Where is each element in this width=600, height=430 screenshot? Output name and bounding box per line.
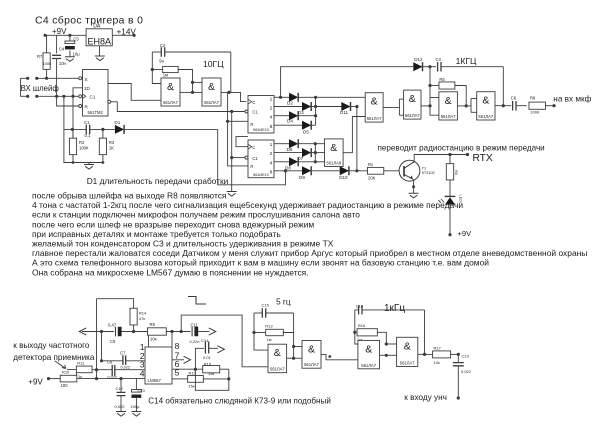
resistor R4 20К (base) <box>367 167 383 174</box>
wire D1 line down and to D10 row <box>218 129 286 184</box>
terminal arrow (row A input) <box>79 328 86 335</box>
ground (C5) <box>65 57 75 62</box>
wire R6 to LED <box>449 180 451 196</box>
gate U2.1 561ЛА7 (10Hz osc) <box>161 78 180 106</box>
svg-text:561ЛА7: 561ЛА7 <box>361 363 377 368</box>
svg-text:1D: 1D <box>84 86 91 91</box>
svg-text:4: 4 <box>270 160 273 166</box>
wire U9.1 out <box>380 354 387 356</box>
wire bus1 vertical <box>315 97 317 125</box>
counter U3 561ИЕ10 (upper) <box>248 96 274 134</box>
svg-text:D4: D4 <box>287 119 293 124</box>
svg-text:8: 8 <box>270 124 273 130</box>
svg-text:желаемый тон конденсатором С3: желаемый тон конденсатором С3 и длительн… <box>32 239 334 249</box>
node R16 left <box>353 331 356 334</box>
node C16 joins output <box>423 353 426 356</box>
resistor R5 100К <box>439 82 455 89</box>
pulse waveform symbol <box>188 297 206 305</box>
resistor R1 1м <box>163 66 179 72</box>
wire Qbar vertical to counter2 C1 and ground <box>231 112 233 192</box>
wire pin8 from row A <box>171 332 173 348</box>
node D1 line joins row8 <box>284 169 287 172</box>
resistor R13 1м <box>266 329 284 335</box>
node row A tap <box>100 330 103 333</box>
wire bus2 vertical <box>314 144 316 162</box>
node R5-output junction <box>465 104 468 107</box>
wire to U8.2 inB <box>294 357 302 359</box>
svg-text:ВХ шлейф: ВХ шлейф <box>21 84 60 93</box>
node bus1 top <box>314 96 317 99</box>
annotation arrow to input node <box>55 361 66 369</box>
svg-text:&: & <box>371 96 378 108</box>
svg-text:R5: R5 <box>439 77 445 82</box>
wire C12 to ground <box>120 396 122 412</box>
wire C16 left vertical <box>355 310 358 344</box>
wire R12 right <box>203 378 229 380</box>
wire R5 right down <box>455 86 466 106</box>
svg-text:561ЛА7: 561ЛА7 <box>400 361 416 366</box>
node +14V endpoint <box>133 34 136 37</box>
capacitor C14 0,01 <box>195 348 204 369</box>
node output на вх мкф <box>552 104 555 107</box>
node C12 branch <box>119 377 122 380</box>
svg-text:+9V: +9V <box>28 377 43 386</box>
gate U8.2 561ЛА7 (5Hz) <box>302 341 321 369</box>
svg-text:15к: 15к <box>208 371 214 376</box>
wire jog to U6.2 inB <box>399 114 403 116</box>
node counter2 C1 junction <box>230 156 233 159</box>
wire to C12 <box>120 379 122 392</box>
svg-text:главное перестали жаловатся со: главное перестали жаловатся соседи Датчи… <box>32 248 587 258</box>
svg-text:после обрыва шлейфа на выходе: после обрыва шлейфа на выходе R8 появляю… <box>32 191 227 201</box>
svg-text:после чего если шлеф не вразры: после чего если шлеф не вразрыве переход… <box>32 219 314 229</box>
pin trigger Q-bar circle <box>108 100 111 103</box>
resistor R16 1м <box>357 329 377 336</box>
wire C3 right <box>441 66 503 68</box>
wire counter1 out1 <box>274 96 289 98</box>
diode D10 <box>340 166 349 175</box>
svg-text:D6: D6 <box>287 147 293 152</box>
diode D6 <box>289 139 298 148</box>
svg-text:R6: R6 <box>454 170 458 175</box>
wire D1 to right vertical <box>124 128 218 130</box>
wire trigger Q-bar to counter1 C1 row <box>111 102 248 112</box>
node loop terminal lower-right <box>35 95 38 98</box>
wire D10 to R4 <box>349 170 368 172</box>
wire C10 to ground <box>135 398 137 412</box>
gate U2.2 561ЛА7 (10Hz osc) <box>202 78 221 106</box>
node lower row - left vertical junction <box>62 95 65 98</box>
wire to C10 <box>135 379 137 391</box>
svg-text:561ЛА7: 561ЛА7 <box>405 113 421 118</box>
svg-text:R14: R14 <box>139 310 147 315</box>
wire R15 right <box>220 368 229 370</box>
svg-text:561ИЕ10: 561ИЕ10 <box>253 128 269 132</box>
wire pin6 to R15 <box>172 368 203 370</box>
wire pin5 to R12 <box>172 378 187 380</box>
wire pin4 row <box>97 378 146 380</box>
svg-text:&: & <box>445 95 452 107</box>
wire to R1 left <box>152 69 162 71</box>
node Qbar row - counters C1 vertical <box>230 110 233 113</box>
svg-text:+14V: +14V <box>117 27 137 36</box>
node +9V endpoint (LED) <box>448 233 451 236</box>
svg-text:D2: D2 <box>287 100 293 105</box>
capacitor C7 0,022 <box>123 355 126 365</box>
svg-text:Она собрана на микросхеме LM56: Она собрана на микросхеме LM567 думаю в … <box>32 267 309 277</box>
gate U6.4 561ЛА7 <box>477 92 495 120</box>
diode D9 <box>302 166 311 175</box>
node bus2-D8 <box>314 160 317 163</box>
svg-text:1К: 1К <box>109 145 114 150</box>
node +9V endpoint (bottom) <box>47 377 50 380</box>
svg-text:561ЛА7: 561ЛА7 <box>304 362 320 367</box>
wire bus1 to D11 <box>316 106 342 108</box>
wire R11-R10 link <box>76 373 78 375</box>
node RTX endpoint <box>466 153 469 156</box>
node C4 line crossing <box>55 95 58 98</box>
wire pin2 row left of C7 <box>102 360 123 362</box>
svg-text:561ЛА7: 561ЛА7 <box>367 116 383 121</box>
node R2 ground <box>72 161 75 164</box>
wire R3 to ground row <box>102 155 104 163</box>
wire C4 to trigger R pin <box>57 59 79 107</box>
wire D11 out <box>350 106 357 108</box>
wire to U9.2 inB <box>386 354 396 356</box>
node D12-C3 <box>428 65 431 68</box>
svg-text:1кГц: 1кГц <box>384 303 405 314</box>
svg-text:DA: DA <box>93 23 101 29</box>
wire R8 to output <box>546 105 555 107</box>
wire R14 to row A <box>133 325 135 332</box>
wire R2 to ground row <box>72 155 74 163</box>
wire R13 right up <box>283 313 293 333</box>
svg-text:S: S <box>85 77 88 82</box>
svg-text:D8: D8 <box>285 166 291 171</box>
capacitor C1 0.1 <box>86 125 89 134</box>
gate U5.1 561ЛА9 <box>325 139 344 167</box>
svg-text:R: R <box>250 122 253 127</box>
svg-text:R13: R13 <box>265 324 273 329</box>
wire input to R11 <box>67 369 77 371</box>
svg-text:1: 1 <box>270 142 273 148</box>
wire node row to C1 <box>64 128 86 130</box>
resistor R14 47к <box>97 299 134 309</box>
wire +9V to R10 <box>49 378 61 380</box>
wire lower row down to R2 <box>72 96 74 138</box>
node bottom-right of R10 <box>95 377 98 380</box>
terminal arrow (row A output) <box>209 328 216 335</box>
wire U6.3 out <box>457 105 471 107</box>
wire D4 to bus1 <box>298 115 316 117</box>
svg-text:D9: D9 <box>299 175 305 180</box>
wire D3 to bus1 <box>311 106 316 108</box>
svg-text:С4: С4 <box>59 47 65 52</box>
wire D9 to D10 <box>311 170 340 172</box>
resistor R2 100K <box>69 138 76 155</box>
svg-text:переводит радиостанцию в режим: переводит радиостанцию в режим передачи <box>378 143 545 152</box>
gate U6.1 561ЛА7 <box>365 93 383 122</box>
svg-text:+9V: +9V <box>52 27 67 36</box>
svg-text:1м: 1м <box>163 72 168 77</box>
terminal arrow (C14) <box>217 346 224 353</box>
svg-text:0.022: 0.022 <box>461 369 472 374</box>
svg-text:561ЛА7: 561ЛА7 <box>270 367 286 372</box>
node U9.2 inA <box>385 342 388 345</box>
wire R11 to C8 (pin3 row) <box>92 369 112 371</box>
svg-text:1: 1 <box>270 96 273 102</box>
IC U7 LM567 <box>145 347 172 384</box>
node emitter <box>412 185 415 188</box>
capacitor C9 0.47 <box>115 327 117 337</box>
capacitor C11 0,22н <box>191 327 193 337</box>
node D10 output junction <box>355 169 358 172</box>
gate U9.1 561ЛА7 (1kHz) <box>358 340 380 368</box>
wire C15 right <box>266 312 294 314</box>
svg-text:D10: D10 <box>339 175 348 180</box>
wire left long vertical <box>96 299 98 379</box>
svg-text:&: & <box>274 347 281 359</box>
capacitor C13 0.022 (output) <box>453 363 464 366</box>
svg-text:0,47: 0,47 <box>108 322 117 327</box>
wire counter2 out1 <box>274 143 289 145</box>
wire regulator to +14V <box>112 34 134 36</box>
svg-text:0,01: 0,01 <box>203 355 212 360</box>
resistor R3 1К <box>99 138 106 155</box>
capacitor C5 10u electrolytic <box>65 41 75 44</box>
wire pin1 from R9 <box>148 335 150 347</box>
capacitor C12 0,022 <box>117 392 126 395</box>
node big loop tap on row A <box>180 330 183 333</box>
node R6 branch <box>448 153 451 156</box>
ground (C12) <box>116 412 126 417</box>
svg-text:D5: D5 <box>303 130 309 135</box>
node lower row - R2 vertical junction <box>71 95 74 98</box>
wire loop row lower to trigger C1 <box>37 95 79 97</box>
svg-text:D1: D1 <box>114 120 120 125</box>
wire trigger D pin to lower row <box>73 88 83 97</box>
svg-text:0,022: 0,022 <box>121 366 131 370</box>
node 10Hz output junction <box>227 91 230 94</box>
resistor R17 10к <box>433 351 451 358</box>
counter U4 561ИЕ10 (lower) <box>248 140 274 178</box>
svg-text:R7: R7 <box>37 54 43 59</box>
wire +9V to C4 <box>56 35 58 53</box>
transistor T1 КТ3102 <box>399 160 420 181</box>
svg-text:+9V: +9V <box>458 229 473 238</box>
svg-text:к входу унч: к входу унч <box>404 393 447 402</box>
node U6.2 out - D12 feedback <box>428 104 431 107</box>
svg-text:С9: С9 <box>110 339 116 344</box>
wire 10Hz line down to counter2 R <box>228 92 248 165</box>
svg-text:10к: 10к <box>434 360 440 365</box>
wire C2 to right vertical <box>165 51 231 53</box>
capacitor C6 <box>513 101 516 111</box>
wire C6 to R8 <box>516 105 527 107</box>
svg-text:2: 2 <box>270 151 273 157</box>
svg-text:R: R <box>250 164 253 169</box>
svg-text:С1: С1 <box>84 120 90 125</box>
svg-text:100К: 100К <box>43 62 52 66</box>
wire D8 to bus2 <box>298 161 316 163</box>
svg-text:0.1: 0.1 <box>85 133 91 138</box>
wire jog to U6.2 inA <box>399 98 403 100</box>
svg-text:4: 4 <box>270 115 273 121</box>
wire counter2 out8 <box>274 170 302 172</box>
capacitor C10 100μ electrolytic <box>132 390 142 393</box>
svg-text:D1 длительность передачи срабо: D1 длительность передачи сработки <box>87 176 229 186</box>
diode D3 <box>302 102 311 111</box>
wire to U9.2 inA <box>386 343 396 345</box>
node R5 left <box>428 84 431 87</box>
wire R9 to C11 <box>166 331 190 333</box>
svg-text:С3: С3 <box>436 57 442 62</box>
svg-text:&: & <box>365 343 372 355</box>
svg-text:10н: 10н <box>59 61 67 66</box>
node R3 ground <box>102 161 105 164</box>
wire down to gate output <box>293 333 295 359</box>
wire U6.1 out <box>383 106 399 108</box>
svg-text:2: 2 <box>270 105 273 111</box>
svg-text:0,022: 0,022 <box>115 404 126 409</box>
wire gate1 output <box>180 91 193 93</box>
node R7-loop junction <box>45 77 48 80</box>
node +9V rail left endpoint <box>44 34 47 37</box>
diode D2 <box>289 93 298 102</box>
wire cap to output terminal <box>457 366 459 398</box>
wire gate2 output to counter1 C <box>221 92 246 101</box>
svg-text:561ЛА7: 561ЛА7 <box>441 114 457 119</box>
wire R16 right down <box>377 332 386 344</box>
wire C14 right <box>209 347 218 349</box>
node U8.2 inA <box>292 345 295 348</box>
wire R7 to loop input row <box>46 69 48 78</box>
wire C3 feedback vertical <box>502 67 504 106</box>
wire to U6.3 inA <box>430 97 439 99</box>
svg-text:561ТМ2: 561ТМ2 <box>88 110 104 115</box>
svg-text:С14 обязательно слюдяной К73-9: С14 обязательно слюдяной К73-9 или подоб… <box>148 396 331 405</box>
svg-text:20К: 20К <box>368 175 376 180</box>
node U8.2 inB <box>292 357 295 360</box>
wire to R13 <box>254 332 266 334</box>
wire 5Hz out to 1kHz gate <box>321 354 358 359</box>
node R2 top <box>71 128 74 131</box>
ground (regulator) <box>99 46 101 56</box>
resistor R8 100К <box>529 102 546 109</box>
connector ВХ шлейф bracket <box>21 78 27 96</box>
node 5Hz out <box>328 355 331 358</box>
svg-text:R17: R17 <box>434 345 442 350</box>
wire U8.1 out <box>287 357 294 359</box>
svg-text:D11: D11 <box>340 110 349 115</box>
svg-text:C5: C5 <box>73 36 79 41</box>
node output cap top <box>457 353 460 356</box>
ground (R2/R3) <box>88 163 90 165</box>
svg-text:D12: D12 <box>414 57 423 62</box>
wire jog vertical 2 <box>470 99 472 113</box>
node к входу унч endpoint <box>457 396 460 399</box>
gate U6.2 561ЛА7 <box>404 90 421 119</box>
svg-text:8: 8 <box>175 341 180 351</box>
svg-text:к выходу частотного: к выходу частотного <box>13 341 90 350</box>
svg-text:8: 8 <box>270 169 273 175</box>
wire D11-D10 vertical <box>356 107 358 171</box>
wire to R5 left <box>430 85 439 87</box>
svg-text:&: & <box>330 142 337 154</box>
svg-text:&: & <box>308 344 315 356</box>
svg-text:С1: С1 <box>252 156 258 161</box>
node gate2 input B <box>191 91 194 94</box>
svg-text:С7: С7 <box>120 350 126 355</box>
svg-text:С6: С6 <box>511 95 517 100</box>
node D11-D10 vertical top <box>355 105 358 108</box>
node U9.2 inB <box>385 354 388 357</box>
svg-text:при исправных деталях и монтаж: при исправных деталях и монтаже требуетс… <box>32 229 281 239</box>
node L1-R1row junction <box>226 120 229 123</box>
node loop terminal lower-left <box>26 95 29 98</box>
wire to counter2 C1 pin <box>232 157 247 159</box>
voltage regulator DA EH8A <box>86 29 112 46</box>
wire C9 to R9 <box>122 331 148 333</box>
svg-text:ЕН8А: ЕН8А <box>87 36 111 46</box>
wire counter2 out2 <box>274 152 302 154</box>
wire to output cap <box>457 354 459 362</box>
svg-text:Rх: Rх <box>368 162 374 167</box>
wire into gate2 input B <box>193 91 203 93</box>
svg-text:R9: R9 <box>150 322 156 327</box>
node out1 to D12 branch <box>279 96 282 99</box>
svg-text:&: & <box>208 81 215 93</box>
diode D5 <box>302 121 311 130</box>
wire R17 right <box>451 353 459 355</box>
wire jog vertical <box>398 99 400 115</box>
wire LA9 output up to gate U6 input <box>343 117 365 153</box>
wire D12 to C3 <box>422 66 436 68</box>
wire +9V rail to regulator <box>45 34 86 36</box>
wire counter1 out8 <box>274 124 302 126</box>
wire R4 to base <box>384 170 404 172</box>
svg-text:С14: С14 <box>201 338 209 343</box>
wire C2 feedback vertical <box>230 52 232 92</box>
svg-text:С12: С12 <box>116 386 124 391</box>
wire counter1 out4 <box>274 115 289 117</box>
wire LED to +9V <box>449 205 451 235</box>
svg-text:4: 4 <box>140 368 145 378</box>
wire row A to pin2 row link <box>101 332 103 361</box>
node loop terminal upper-right <box>35 77 38 80</box>
wire counter2 C hook <box>236 137 248 147</box>
wire +9V to C5 <box>69 35 71 41</box>
svg-text:&: & <box>409 93 416 105</box>
svg-text:если к станции подключен микро: если к станции подключен микрофон получа… <box>32 210 360 220</box>
svg-text:С1: С1 <box>252 110 258 115</box>
node loop terminal upper-left <box>26 77 29 80</box>
capacitor C3 <box>438 62 441 71</box>
node bus2 top <box>314 142 317 145</box>
svg-text:C: C <box>252 145 255 150</box>
resistor R6 1К <box>449 155 451 164</box>
diode D11 <box>341 102 350 111</box>
resistor R11 1к <box>76 366 92 373</box>
diode D1 <box>115 125 124 134</box>
wire C16 right <box>362 309 425 311</box>
node bus1-D4 <box>314 114 317 117</box>
resistor R10 100 <box>60 375 77 382</box>
wire bottom loop <box>195 369 228 390</box>
svg-text:10ГЦ: 10ГЦ <box>203 59 224 69</box>
svg-text:LM567: LM567 <box>148 378 162 383</box>
svg-text:&: & <box>404 340 411 352</box>
